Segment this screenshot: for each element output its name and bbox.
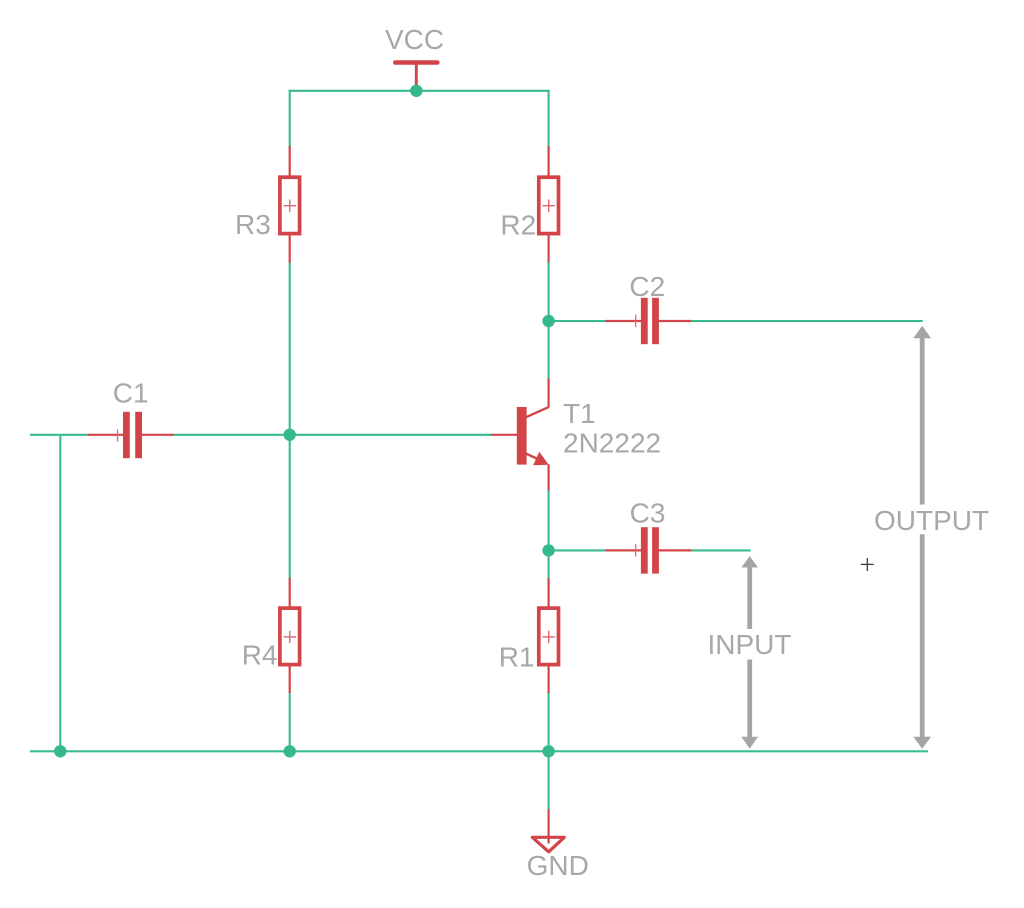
- wire left vertical: [59, 435, 61, 752]
- ground GND: [532, 809, 564, 852]
- annotation plus mark: [861, 558, 874, 571]
- wire R4 bottom: [289, 692, 291, 751]
- svg-text:2N2222: 2N2222: [563, 427, 661, 458]
- resistor R3: [280, 146, 300, 263]
- wire collector vertical: [548, 321, 550, 379]
- power symbol VCC: [395, 63, 437, 88]
- wire R4 top: [289, 435, 291, 579]
- junction GND rail node: [542, 745, 554, 757]
- capacitor C1: [88, 412, 174, 458]
- transistor T1: [491, 378, 549, 490]
- svg-text:T1: T1: [563, 398, 596, 429]
- wire emitter vertical: [548, 490, 550, 550]
- junction left rail node: [54, 745, 66, 757]
- junction collector node: [542, 315, 554, 327]
- svg-text:R4: R4: [242, 640, 278, 671]
- svg-text:VCC: VCC: [385, 24, 444, 55]
- wire R3 top drop: [289, 90, 291, 148]
- wire collector node to C2: [549, 320, 606, 322]
- svg-text:R3: R3: [235, 209, 271, 240]
- wire top rail: [289, 90, 550, 92]
- resistor R4: [280, 578, 300, 693]
- wire base row: [290, 434, 492, 436]
- resistor R1: [539, 578, 559, 693]
- svg-text:OUTPUT: OUTPUT: [874, 505, 989, 536]
- wire C3 right to input: [691, 549, 751, 551]
- wire emitter node to C3: [549, 549, 606, 551]
- capacitor C2: [606, 298, 692, 344]
- wire R2 bottom to collector node: [548, 262, 550, 321]
- svg-text:R2: R2: [500, 209, 536, 240]
- junction base node: [284, 429, 296, 441]
- svg-text:C2: C2: [629, 271, 665, 302]
- wire C2 right to output: [691, 320, 923, 322]
- svg-text:GND: GND: [527, 850, 589, 881]
- wire bottom rail: [30, 750, 928, 752]
- svg-text:R1: R1: [499, 642, 535, 673]
- resistor R2: [539, 146, 559, 263]
- annotation INPUT arrow: [741, 556, 758, 749]
- wire R2 top drop: [548, 90, 550, 148]
- svg-text:INPUT: INPUT: [708, 629, 792, 660]
- wire input left stub: [30, 434, 89, 436]
- annotation OUTPUT arrow: [913, 326, 931, 749]
- junction emitter node: [542, 544, 554, 556]
- wire R1 bottom: [548, 692, 550, 751]
- capacitor C3: [606, 527, 692, 573]
- svg-text:C1: C1: [113, 377, 149, 408]
- wire C1 to base node: [174, 434, 290, 436]
- junction VCC node: [410, 85, 422, 97]
- wire emitter node to R1: [548, 550, 550, 578]
- junction R4 rail node: [284, 745, 296, 757]
- wire GND stub: [548, 751, 550, 809]
- svg-text:C3: C3: [630, 498, 666, 529]
- wire R3 bottom to base node: [289, 262, 291, 435]
